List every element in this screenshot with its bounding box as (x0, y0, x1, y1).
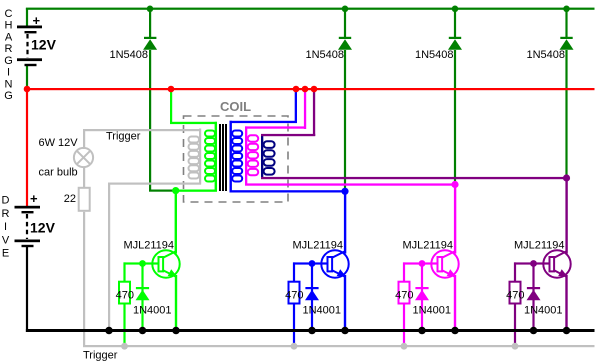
wire: R1 to trigger bus (123, 304, 125, 347)
diode D1 1N5408 (143, 37, 157, 50)
svg-text:COIL: COIL (220, 99, 251, 114)
wire: diode column 3 (454, 8, 456, 186)
node: +12V drive bus (red) (26, 88, 595, 90)
wire: magenta winding top feed from red bus (245, 89, 306, 129)
svg-text:D: D (2, 195, 10, 207)
wire: magenta winding rail (245, 126, 247, 185)
svg-text:1N4001: 1N4001 (303, 305, 342, 317)
diode D5 1N4001 (136, 287, 150, 300)
svg-text:C: C (5, 8, 13, 20)
wire: Q4 base to resistor R4 (514, 262, 516, 281)
wire: Q2 collector riser (344, 191, 346, 254)
wire: Q2 emitter to ground bus (344, 275, 346, 331)
svg-text:470: 470 (395, 290, 413, 302)
battery B2 DRIVE 12V (15, 206, 41, 247)
diode D7 1N4001 (415, 287, 429, 300)
winding L1 trigger (primary trigger coil) (189, 137, 200, 179)
resistor R2 470 (289, 282, 300, 304)
wire: Q4 base diode branch (532, 263, 534, 331)
wire: magenta winding bottom to Q3 collector node (245, 183, 456, 185)
winding L2 (green drive winding) (205, 131, 215, 182)
svg-text:470: 470 (506, 290, 524, 302)
wire: lamp to resistor R5 (83, 167, 85, 188)
wire: Q2 base diode branch (311, 263, 313, 331)
svg-text:V: V (2, 234, 10, 246)
resistor R3 470 (399, 282, 410, 304)
node C: Q3 collector junction (451, 181, 458, 188)
wire: Q3 base (403, 262, 437, 264)
svg-text:N: N (5, 78, 13, 90)
wire: diode column 1 (top bus to collector node) (149, 8, 174, 192)
diode D6 1N4001 (305, 287, 319, 300)
svg-text:470: 470 (285, 290, 303, 302)
junction dots: ground bus (105, 327, 570, 335)
wire: purple winding bottom to Q4 collector node (261, 177, 568, 179)
svg-text:Trigger: Trigger (83, 350, 118, 362)
transistor Q2 MJL21194 (blue) (285, 240, 349, 347)
diode D4 1N5408 (560, 37, 574, 50)
wire: Q1 emitter to ground bus (175, 275, 177, 331)
svg-text:1N5408: 1N5408 (305, 49, 344, 61)
svg-text:+: + (33, 13, 41, 28)
wire: green winding rail (215, 122, 217, 192)
node: top charging bus (dark green) (26, 8, 595, 10)
transistor Q1 MJL21194 (green) (116, 240, 180, 347)
svg-text:1N5408: 1N5408 (526, 49, 565, 61)
wire: purple winding top feed from red bus (261, 89, 315, 136)
wire: blue winding top feed from red bus (230, 89, 298, 123)
wire: trigger winding rail (199, 129, 201, 185)
wire: Q3 collector riser (454, 185, 456, 254)
wire: Q3 base to resistor R3 (403, 262, 405, 281)
wire: R3 to trigger bus (403, 304, 405, 347)
wire: Q4 base (514, 262, 549, 264)
battery B1 CHARGING 12V (17, 26, 42, 67)
wire: R4 to trigger bus (514, 304, 516, 347)
wire: green winding top feed from red bus (170, 89, 217, 124)
transformer core (219, 124, 227, 191)
wire: Q1 collector riser (175, 190, 177, 254)
diode D8 1N4001 (527, 287, 541, 300)
node D: Q4 collector junction (563, 174, 570, 181)
wire: Q2 base to resistor R2 (293, 262, 295, 281)
svg-text:470: 470 (116, 290, 134, 302)
label DRIVE (2, 195, 10, 260)
svg-text:I: I (7, 67, 10, 79)
node B: Q2 collector junction (341, 188, 348, 195)
resistor R4 470 (510, 282, 521, 304)
transistor Q1 body (152, 250, 179, 277)
wire: Q1 base diode branch (141, 263, 143, 331)
wire: charging battery positive lead (26, 8, 28, 26)
svg-text:1N4001: 1N4001 (413, 305, 452, 317)
svg-text:Trigger: Trigger (106, 130, 141, 142)
label CHARGING (4, 8, 13, 102)
svg-text:12V: 12V (30, 220, 56, 236)
wire: diode column 4 (565, 8, 567, 179)
node: trigger return bus (silver) (83, 345, 595, 347)
svg-text:G: G (4, 55, 13, 67)
junction dots: transistor bases (139, 260, 146, 267)
wire: drive battery negative down to ground bus (26, 247, 28, 332)
wire: Q3 emitter to ground bus (454, 275, 456, 331)
svg-text:1N4001: 1N4001 (133, 305, 172, 317)
winding L3 (blue drive winding) (232, 131, 242, 182)
wire: Q4 emitter to ground bus (565, 275, 567, 331)
junction dots: red bus (24, 86, 318, 93)
node A: Q1 collector junction (172, 187, 179, 194)
junction dots: top bus (147, 6, 570, 13)
svg-text:R: R (2, 208, 10, 220)
transistor Q3 MJL21194 (magenta) (395, 240, 459, 347)
wire: green winding bottom to Q1 collector node (175, 190, 218, 192)
wire: Q1 base (124, 262, 158, 264)
wire: charging battery negative lead to red bus (26, 66, 28, 89)
wire: trigger lamp top feed to trigger winding (83, 129, 201, 149)
lamp 6W 12V car bulb (74, 148, 93, 167)
svg-text:1N5408: 1N5408 (415, 49, 454, 61)
svg-text:H: H (5, 20, 13, 32)
wire: navy winding rail (261, 134, 263, 179)
wire: blue winding bottom to Q2 collector node (230, 190, 347, 192)
winding L5 (navy drive winding) (264, 141, 275, 174)
svg-text:G: G (4, 90, 13, 102)
wire: R2 to trigger bus (293, 304, 295, 347)
junction dots: trigger bus (121, 343, 518, 350)
wire: Q1 base to resistor R1 (123, 262, 125, 281)
wire: Q2 base (293, 262, 327, 264)
svg-text:A: A (5, 31, 13, 43)
transistor Q4 body (543, 250, 570, 277)
svg-text:1N5408: 1N5408 (109, 49, 148, 61)
svg-text:E: E (2, 248, 9, 260)
resistor R1 470 (119, 282, 130, 304)
transistor Q2 body (321, 250, 348, 277)
svg-text:22: 22 (64, 193, 76, 205)
wire: blue winding rail (230, 121, 232, 193)
wire: diode column 2 (344, 8, 346, 192)
wire: resistor R5 down to trigger bus (83, 212, 85, 346)
diode D3 1N5408 (448, 37, 462, 50)
svg-text:12V: 12V (31, 37, 57, 53)
winding L4 (magenta drive winding) (248, 135, 259, 175)
transistor Q3 body (431, 250, 458, 277)
coil dashed boundary box (184, 116, 289, 202)
wire: trigger winding bottom return (108, 183, 201, 331)
svg-text:R: R (5, 43, 13, 55)
wire: Q3 base diode branch (421, 263, 423, 331)
svg-text:1N4001: 1N4001 (524, 305, 563, 317)
resistor R5 22 (79, 188, 90, 211)
diode D2 1N5408 (338, 37, 352, 50)
node: ground bus (black) (26, 329, 595, 332)
svg-text:car bulb: car bulb (39, 167, 78, 179)
svg-text:6W 12V: 6W 12V (39, 137, 79, 149)
wire: red bus to drive battery positive (26, 88, 28, 206)
svg-text:I: I (4, 221, 7, 233)
wire: Q4 collector riser (565, 178, 567, 254)
transistor Q4 MJL21194 (purple) (506, 240, 571, 347)
svg-text:+: + (30, 191, 38, 206)
